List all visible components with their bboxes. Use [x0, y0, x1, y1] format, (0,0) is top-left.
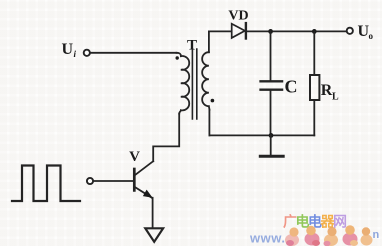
wire secondary bottom to rail: [208, 110, 210, 136]
base bar: [133, 169, 136, 190]
transistor V: [134, 161, 153, 228]
resistor RL label: [321, 82, 339, 103]
watermark mascots: [285, 225, 373, 246]
input terminal (Ui): [84, 50, 90, 56]
capacitor C: [261, 81, 283, 89]
bottom rail wire: [209, 134, 314, 136]
square wave signal: [12, 166, 80, 202]
resistor RL: [310, 75, 319, 100]
wire junction to ground: [270, 135, 272, 155]
svg-text:n: n: [373, 229, 380, 241]
watermark 广电电器网: [249, 214, 380, 247]
svg-text:广电电器网: 广电电器网: [283, 214, 347, 230]
svg-text:V: V: [129, 149, 140, 165]
svg-text:VD: VD: [228, 8, 248, 23]
wire top to capacitor: [270, 31, 272, 80]
svg-text:C: C: [285, 77, 298, 97]
node Uo label: [358, 23, 374, 41]
transformer T secondary winding: [202, 52, 209, 110]
base wire: [93, 180, 133, 182]
ground (emitter): [145, 228, 163, 242]
node junction dot (cap branch, top): [268, 29, 273, 34]
emitter lead: [135, 187, 152, 198]
diode VD: [232, 23, 246, 38]
input terminal (base): [87, 178, 93, 184]
secondary polarity dot: [211, 99, 215, 103]
node Ui label: [62, 41, 77, 59]
node junction dot (bottom rail): [269, 133, 274, 138]
wire secondary top to diode: [209, 31, 232, 52]
svg-text:o: o: [369, 31, 374, 41]
transformer core: [192, 49, 196, 119]
svg-text:U: U: [62, 41, 74, 58]
wire capacitor to bottom rail: [270, 91, 272, 135]
wire Ui to transformer primary: [90, 52, 176, 54]
svg-text:R: R: [321, 82, 333, 99]
wire primary bottom to collector: [153, 114, 179, 162]
wire diode to output terminal: [247, 30, 347, 32]
svg-text:www.: www.: [249, 231, 285, 246]
output terminal (Uo): [347, 28, 353, 34]
ground (output side): [260, 155, 283, 158]
svg-text:i: i: [74, 49, 77, 59]
emitter arrow: [144, 191, 151, 197]
collector lead: [135, 161, 153, 175]
wire resistor to bottom rail: [313, 100, 315, 135]
svg-text:L: L: [332, 92, 339, 103]
transformer T primary winding: [177, 53, 190, 114]
emitter vertical: [152, 198, 154, 228]
node junction dot (RL branch, top): [312, 29, 317, 34]
primary polarity dot: [176, 56, 179, 59]
wire top to resistor RL: [313, 31, 315, 75]
